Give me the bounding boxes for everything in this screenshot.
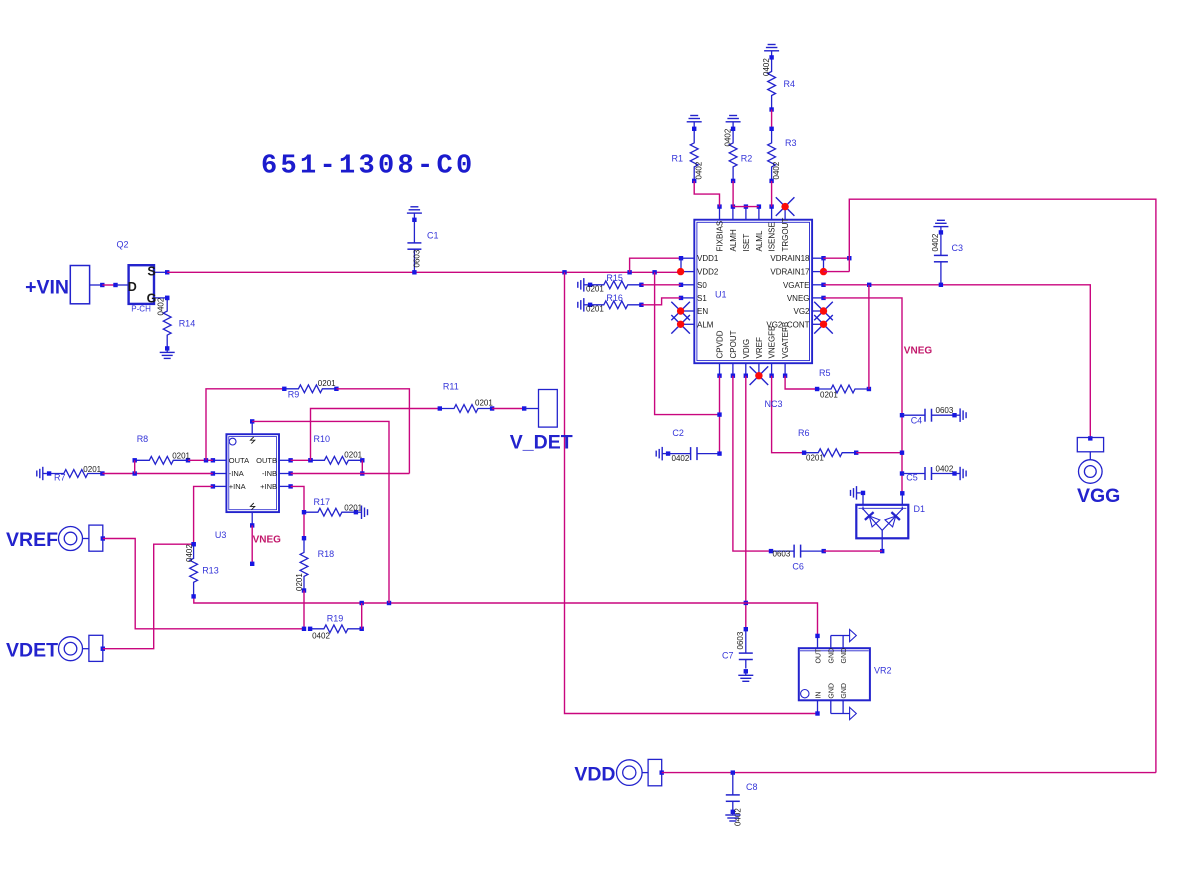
V_DET label — [510, 432, 573, 454]
title 651-1308-C0 — [261, 152, 476, 182]
svg-text:R9: R9 — [288, 390, 300, 400]
svg-text:R17: R17 — [314, 497, 331, 507]
wire VDD1 branch — [630, 258, 681, 272]
svg-text:0402: 0402 — [157, 297, 166, 315]
R11 label — [443, 382, 459, 392]
ground right of C4 — [955, 408, 967, 422]
C8 label — [746, 782, 758, 792]
svg-text:VGG: VGG — [1077, 485, 1120, 507]
R11 value 0201 — [475, 399, 493, 408]
wire R15 to S0 — [641, 284, 680, 286]
svg-text:VDD1: VDD1 — [697, 254, 719, 263]
capacitor C8 — [726, 773, 740, 814]
wire top pins ALMH-ISET-ALML — [733, 206, 759, 208]
R19 label — [327, 614, 344, 624]
R18 label — [318, 549, 335, 559]
wire VNEG row — [194, 596, 818, 636]
C2 label — [672, 428, 684, 438]
ground left of R7 — [37, 467, 47, 480]
no-connect X on VG2 — [814, 302, 833, 321]
R4 label — [784, 79, 796, 89]
ground below C8 — [725, 812, 740, 821]
resistor R17 — [302, 508, 358, 516]
C6 label — [792, 562, 804, 572]
svg-text:OUTB: OUTB — [256, 456, 277, 465]
wire R3 to ISENSE — [771, 181, 773, 207]
svg-text:0402: 0402 — [772, 161, 781, 179]
R15 value 0201 — [586, 284, 604, 293]
svg-text:R16: R16 — [606, 293, 623, 303]
svg-text:ALML: ALML — [755, 230, 764, 251]
resistor R11 — [438, 405, 495, 413]
wire R16 to S1 — [641, 298, 680, 305]
R1 value 0402 — [695, 161, 704, 179]
wire VDIG down to C7 — [745, 376, 747, 630]
wire +VIN to Q2.D — [102, 283, 128, 287]
svg-text:0402: 0402 — [672, 454, 690, 463]
C4 label — [911, 415, 923, 425]
R9 label — [288, 390, 300, 400]
svg-text:GND: GND — [841, 648, 848, 664]
R4 value 0402 — [762, 58, 771, 76]
wire OUTB to R10 — [291, 459, 311, 461]
C1 label — [427, 231, 439, 241]
wire R7 to -INA — [102, 473, 212, 475]
C3 value 0402 — [931, 233, 940, 251]
wire VNEG to D1 — [824, 298, 903, 493]
junction OUTB / R11 riser — [308, 458, 312, 462]
svg-text:0402: 0402 — [185, 544, 194, 562]
wire R8 drop — [134, 460, 136, 473]
connector V_DET — [522, 390, 557, 428]
resistor R14 — [163, 296, 171, 351]
svg-text:0201: 0201 — [318, 379, 336, 388]
VNEG net label at U3 — [253, 535, 282, 546]
wire R1 to FIXBIAS — [694, 181, 719, 207]
capacitor C7 — [739, 627, 753, 669]
svg-text:VDD2: VDD2 — [697, 268, 719, 277]
svg-text:R15: R15 — [606, 273, 623, 283]
R17 value 0201 — [344, 504, 362, 513]
wire VDET to R13 node — [103, 544, 194, 649]
svg-text:+INB: +INB — [260, 482, 277, 491]
op-amp controller U1 — [679, 204, 826, 378]
svg-text:U1: U1 — [715, 290, 727, 300]
svg-text:R11: R11 — [443, 382, 459, 392]
wire VDRAIN riser to right rail — [849, 199, 1156, 772]
svg-text:P-CH: P-CH — [131, 305, 151, 314]
svg-text:D: D — [128, 280, 137, 294]
capacitor C2 — [662, 447, 722, 460]
C7 label — [722, 651, 734, 661]
C8 value 0402 — [734, 808, 743, 826]
C4 value 0603 — [936, 406, 954, 415]
C5 value 0402 — [936, 464, 954, 473]
svg-text:0603: 0603 — [773, 550, 791, 559]
wire R18 to R19 node — [303, 591, 305, 629]
svg-text:S: S — [147, 265, 155, 279]
wire CPOUT to C6 — [733, 376, 771, 551]
R6 value 0201 — [806, 454, 824, 463]
R15 label — [606, 273, 623, 283]
ground left of D1 — [851, 486, 861, 500]
wire VDRAIN18 to riser — [824, 256, 852, 260]
svg-text:U3: U3 — [215, 530, 227, 540]
capacitor C6 — [769, 545, 826, 558]
svg-text:+INA: +INA — [229, 482, 246, 491]
U1 VDRAIN17 junction dot — [820, 268, 827, 275]
wire R11 to V_DET — [492, 408, 524, 410]
svg-text:C7: C7 — [722, 651, 734, 661]
R18 value 0201 — [295, 573, 304, 591]
R7 value 0201 — [83, 465, 101, 474]
R10 value 0201 — [344, 451, 362, 460]
wire U3 VNEG stub — [250, 525, 254, 566]
svg-text:0402: 0402 — [762, 58, 771, 76]
NC3 label — [765, 399, 783, 409]
C6 value 0603 — [773, 550, 791, 559]
svg-text:0603: 0603 — [736, 631, 745, 649]
svg-text:GND: GND — [841, 683, 848, 699]
resistor R4 — [768, 55, 776, 112]
C2 value 0402 — [672, 454, 690, 463]
svg-text:0402: 0402 — [695, 161, 704, 179]
svg-text:+VIN: +VIN — [25, 277, 69, 299]
svg-text:0603: 0603 — [413, 249, 422, 267]
R10 label — [314, 434, 331, 444]
R8 label — [137, 434, 149, 444]
junction VDIG / VNEG rail — [744, 601, 748, 605]
svg-text:R8: R8 — [137, 434, 149, 444]
svg-text:Q2: Q2 — [117, 240, 129, 250]
no-connect X on TRGOUT — [776, 197, 795, 216]
svg-text:0402: 0402 — [724, 128, 733, 146]
R13 label — [202, 566, 219, 576]
svg-text:ALM: ALM — [697, 320, 714, 329]
svg-text:0201: 0201 — [344, 504, 362, 513]
R8 value 0201 — [172, 452, 190, 461]
junction VNEG row / R19 — [360, 601, 364, 605]
Q2 label — [117, 240, 129, 250]
resistor R6 — [802, 449, 859, 457]
wire VDD rail — [662, 772, 1156, 774]
svg-text:CPVDD: CPVDD — [716, 330, 725, 358]
wire CPVDD down — [719, 376, 721, 454]
ground right of R17 — [356, 506, 368, 520]
wire VNEGFB to R6 — [772, 376, 805, 453]
wire R10 to -INB — [360, 460, 364, 475]
svg-text:NC3: NC3 — [765, 399, 783, 409]
R3 value 0402 — [772, 161, 781, 179]
resistor R16 — [588, 301, 644, 309]
VGG label — [1077, 485, 1120, 507]
svg-text:S1: S1 — [697, 294, 707, 303]
no-connect X on ALM — [671, 315, 690, 334]
R6 label — [798, 428, 810, 438]
svg-text:FIXBIAS: FIXBIAS — [716, 221, 725, 252]
svg-text:ISET: ISET — [742, 234, 751, 252]
svg-text:VNEG: VNEG — [787, 294, 810, 303]
svg-text:S0: S0 — [697, 281, 707, 290]
resistor R18 — [300, 536, 308, 593]
svg-text:VDD: VDD — [574, 764, 615, 786]
svg-text:0201: 0201 — [475, 399, 493, 408]
resistor R2 — [729, 127, 737, 183]
svg-text:VDIG: VDIG — [742, 339, 751, 359]
regulator VR2 — [799, 630, 870, 720]
capacitor C5 — [900, 467, 957, 480]
ground left of R16 — [578, 298, 588, 312]
svg-text:R7: R7 — [54, 472, 66, 482]
wire VREF to R19 — [103, 539, 304, 629]
svg-text:651-1308-C0: 651-1308-C0 — [261, 152, 476, 182]
transistor Q2 — [128, 265, 170, 306]
resistor R8 — [133, 456, 191, 464]
ground above C3 — [933, 220, 948, 232]
junction VGATE / R5 riser — [867, 283, 871, 287]
svg-text:D1: D1 — [914, 504, 926, 514]
R1 label — [672, 154, 684, 164]
svg-text:TRGOUT: TRGOUT — [781, 218, 790, 252]
svg-text:C1: C1 — [427, 231, 439, 241]
C1 value 0603 — [413, 249, 422, 267]
wire R2 to ALMH — [732, 181, 734, 207]
R14 label — [179, 318, 196, 328]
svg-text:VDRAIN18: VDRAIN18 — [770, 254, 810, 263]
ground right of C5 — [955, 467, 967, 480]
wire R9 to -INB — [336, 389, 409, 474]
svg-text:C3: C3 — [952, 243, 964, 253]
svg-text:0201: 0201 — [344, 451, 362, 460]
svg-text:0402: 0402 — [931, 233, 940, 251]
resistor R13 — [190, 542, 198, 599]
junction VDD / C8 — [731, 770, 735, 774]
ground above R2 — [726, 116, 741, 129]
wire U3 supply to VNEG row — [252, 421, 389, 603]
svg-text:0402: 0402 — [312, 632, 330, 641]
ground above R4 — [764, 45, 779, 58]
ground left of C2 — [656, 447, 662, 461]
resistor R7 — [47, 470, 105, 478]
svg-text:G: G — [147, 291, 157, 305]
svg-text:VNEG: VNEG — [904, 346, 933, 357]
R13 value 0402 — [185, 544, 194, 562]
junction R13 top — [191, 542, 195, 546]
svg-text:R1: R1 — [672, 154, 684, 164]
wire C6 to D1 — [824, 550, 883, 552]
connector +VIN label — [25, 277, 69, 299]
VNEG net label right — [904, 346, 933, 357]
no-connect X on VREF pin — [750, 366, 769, 385]
svg-text:CPOUT: CPOUT — [729, 330, 738, 358]
wire bus down to CPVDD node — [655, 272, 720, 414]
C5 label — [906, 473, 918, 483]
wire R10 node to R11 — [311, 409, 440, 461]
junction OUTA / R9 — [204, 458, 208, 462]
U1 VDD2 junction dot — [677, 268, 684, 275]
junction -INA / R8 drop — [133, 471, 137, 475]
R2 label — [741, 154, 753, 164]
wire VGATE to VGG — [824, 285, 1091, 439]
svg-text:VG2: VG2 — [793, 307, 810, 316]
junction R19 left — [302, 627, 306, 631]
svg-text:-INA: -INA — [229, 469, 244, 478]
svg-text:VNEG: VNEG — [253, 535, 282, 546]
resistor R3 — [768, 127, 776, 183]
R5 value 0201 — [820, 390, 838, 399]
svg-text:0402: 0402 — [734, 808, 743, 826]
junction VNEG riser / R6 — [900, 451, 904, 455]
wire R9 to OUTA — [206, 389, 284, 461]
svg-text:VGATE: VGATE — [783, 281, 810, 290]
VDD label — [574, 764, 615, 786]
svg-text:OUT: OUT — [815, 648, 822, 664]
C7 value 0603 — [736, 631, 745, 649]
junction VNEG row / U3 supply — [387, 601, 391, 605]
svg-text:C5: C5 — [906, 473, 918, 483]
svg-text:IN: IN — [815, 692, 822, 699]
svg-text:C8: C8 — [746, 782, 758, 792]
svg-text:0201: 0201 — [586, 304, 604, 313]
junction CPVDD / bus branch — [717, 412, 721, 416]
capacitor C1 — [407, 218, 421, 275]
junction main bus / CPVDD branch — [652, 270, 656, 274]
svg-text:R2: R2 — [741, 154, 753, 164]
R5 label — [819, 368, 831, 378]
svg-text:R19: R19 — [327, 614, 344, 624]
op-amp U3 — [211, 419, 293, 527]
wire VGATEFB to R5 — [785, 376, 817, 389]
ground above C1 — [407, 207, 422, 220]
svg-text:0201: 0201 — [806, 454, 824, 463]
wire +VIN bus (Q2.S to VDD2) — [167, 271, 680, 273]
svg-text:C2: C2 — [672, 428, 684, 438]
svg-text:VREF: VREF — [6, 529, 58, 551]
svg-text:R10: R10 — [314, 434, 331, 444]
R17 label — [314, 497, 331, 507]
resistor R19 — [308, 625, 364, 633]
connector +VIN — [70, 266, 104, 304]
junction main bus / VDD1 branch — [627, 270, 631, 274]
diode pair D1 — [856, 491, 908, 554]
no-connect X on VG2_CONT — [814, 315, 833, 334]
svg-text:GND: GND — [829, 683, 836, 699]
svg-text:0201: 0201 — [295, 573, 304, 591]
resistor R1 — [690, 127, 698, 183]
svg-text:R5: R5 — [819, 368, 831, 378]
wire +INB to R17/R18 — [291, 486, 304, 538]
U1 label — [715, 290, 727, 300]
wire -INB row — [291, 473, 410, 475]
resistor R5 — [815, 385, 871, 393]
svg-text:R6: R6 — [798, 428, 810, 438]
svg-text:R4: R4 — [784, 79, 796, 89]
wire R5 to VGATE — [868, 285, 870, 389]
ground left of R15 — [578, 278, 588, 292]
svg-text:ISENSE: ISENSE — [768, 222, 777, 251]
ground above R1 — [687, 116, 702, 129]
VDET label — [6, 640, 58, 662]
wire R6 to VNEG riser — [856, 452, 902, 454]
svg-text:0402: 0402 — [936, 464, 954, 473]
svg-text:VGATEFB: VGATEFB — [781, 322, 790, 359]
capacitor C3 — [934, 230, 948, 287]
connector VDD — [617, 759, 664, 785]
svg-text:EN: EN — [697, 307, 708, 316]
svg-text:R14: R14 — [179, 318, 196, 328]
Q2 type P-CH — [131, 305, 151, 314]
wire VDRAIN17 to riser — [824, 271, 850, 273]
junction main bus / V_DET drop — [562, 270, 566, 274]
U3 label — [215, 530, 227, 540]
capacitor C4 — [900, 409, 957, 422]
svg-text:VNEGFB: VNEGFB — [768, 326, 777, 359]
R14 value 0402 — [157, 297, 166, 315]
svg-text:ALMH: ALMH — [729, 229, 738, 251]
svg-text:VR2: VR2 — [874, 666, 892, 676]
svg-text:OUTA: OUTA — [229, 456, 249, 465]
D1 label — [914, 504, 926, 514]
svg-text:VDET: VDET — [6, 640, 58, 662]
wire R4 to R3 — [771, 110, 773, 129]
svg-text:0603: 0603 — [936, 406, 954, 415]
connector VREF — [59, 525, 106, 551]
resistor R9 — [282, 385, 339, 393]
ground below R14 — [160, 348, 175, 358]
svg-text:R3: R3 — [785, 138, 797, 148]
R2 value 0402 — [724, 128, 733, 146]
svg-text:C6: C6 — [792, 562, 804, 572]
svg-text:GND: GND — [829, 648, 836, 664]
connector VGG — [1077, 436, 1103, 483]
resistor R10 — [308, 456, 364, 464]
R3 label — [785, 138, 797, 148]
wire bus down to VR2.IN — [565, 272, 818, 713]
R19 value 0402 — [312, 632, 330, 641]
VREF label — [6, 529, 58, 551]
wire R8 to OUTA — [188, 459, 213, 461]
ground below C7 — [738, 669, 753, 681]
svg-text:-INB: -INB — [262, 469, 277, 478]
resistor R15 — [588, 281, 644, 289]
svg-text:V_DET: V_DET — [510, 432, 573, 454]
R9 value 0201 — [318, 379, 336, 388]
svg-text:0201: 0201 — [586, 284, 604, 293]
svg-text:R18: R18 — [318, 549, 335, 559]
svg-text:C4: C4 — [911, 415, 923, 425]
connector VDET — [59, 635, 106, 661]
R7 label — [54, 472, 66, 482]
C3 label — [952, 243, 964, 253]
wire +INA to R13 — [194, 486, 213, 544]
svg-text:0201: 0201 — [83, 465, 101, 474]
VR2 label — [874, 666, 892, 676]
svg-text:0201: 0201 — [820, 390, 838, 399]
svg-text:VDRAIN17: VDRAIN17 — [770, 268, 810, 277]
R16 label — [606, 293, 623, 303]
svg-text:R13: R13 — [202, 566, 219, 576]
svg-text:0201: 0201 — [172, 452, 190, 461]
no-connect X on EN — [671, 302, 690, 321]
svg-text:VREF: VREF — [755, 337, 764, 358]
R16 value 0201 — [586, 304, 604, 313]
wire R19 to VNEG row — [361, 603, 363, 629]
